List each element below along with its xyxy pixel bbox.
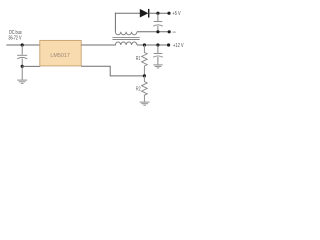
wire secondary stem up xyxy=(114,13,116,32)
capacitor C3 (12 V output) xyxy=(153,54,163,58)
svg-text:LM5017: LM5017 xyxy=(50,53,70,59)
ground (input) xyxy=(17,80,27,83)
node R1 top junction xyxy=(143,43,146,46)
node C3 top junction xyxy=(156,43,159,46)
node input return junction xyxy=(21,65,24,68)
wire input rail xyxy=(6,44,40,46)
ground (12V cap) xyxy=(153,65,162,68)
diode D1 xyxy=(140,9,149,18)
label DC bus 36-72 V xyxy=(8,30,22,41)
resistor R2 xyxy=(142,76,148,102)
transformer T1 primary winding xyxy=(115,42,137,45)
wire RTN pin to divider xyxy=(81,66,144,76)
wire secondary return rail xyxy=(137,31,169,33)
wire C2 bottom stem xyxy=(157,26,159,32)
capacitor C2 (5 V output) xyxy=(153,22,163,27)
transformer T1 core xyxy=(112,38,139,40)
svg-text:+5 V: +5 V xyxy=(173,11,182,17)
svg-text:36-72 V: 36-72 V xyxy=(8,35,22,41)
node return terminal xyxy=(168,30,171,33)
node +12V terminal xyxy=(167,43,170,46)
wire input cap top stem xyxy=(21,45,23,55)
node feedback junction xyxy=(143,74,146,77)
node input junction xyxy=(21,43,24,46)
capacitor C1 (input bulk) xyxy=(17,55,27,59)
label return mark xyxy=(172,31,176,33)
ground (R2) xyxy=(140,102,150,105)
wire C2 top stem xyxy=(157,13,159,21)
wire C3 bottom stem xyxy=(157,57,159,64)
wire diode to +5V terminal xyxy=(149,12,169,14)
wire input cap bottom stem xyxy=(21,59,23,67)
wire +12V rail xyxy=(137,44,169,46)
node return junction xyxy=(156,30,159,33)
svg-text:R2: R2 xyxy=(136,87,141,93)
wire ground stem left xyxy=(21,66,23,79)
resistor R1 xyxy=(142,45,148,76)
wire return to IC xyxy=(22,65,40,67)
node +5V cap junction xyxy=(156,12,159,15)
svg-text:+12 V: +12 V xyxy=(173,43,184,49)
transformer T1 secondary winding xyxy=(115,32,137,35)
wire SW pin to primary xyxy=(81,44,116,46)
wire top rail to diode xyxy=(115,12,140,14)
regulator U1 LM5017 xyxy=(40,40,81,66)
svg-text:R1: R1 xyxy=(136,56,141,62)
wire C3 top stem xyxy=(157,45,159,53)
node +5V terminal xyxy=(167,12,170,15)
